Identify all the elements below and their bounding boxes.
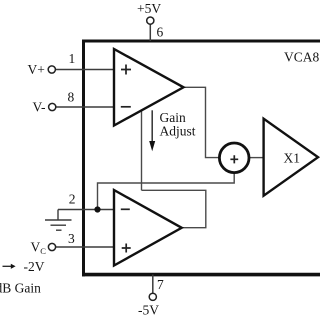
svg-text:1: 1	[69, 51, 76, 66]
terminal +5V pin 6	[147, 17, 154, 24]
svg-text:X1: X1	[284, 151, 301, 166]
terminal V- pin 8	[49, 103, 56, 110]
svg-text:7: 7	[157, 277, 164, 292]
svg-text:+5V: +5V	[137, 1, 161, 16]
op-amp A1	[114, 49, 184, 126]
svg-text:V+: V+	[28, 62, 45, 77]
gain adjust arrow	[149, 110, 155, 151]
wire -5V supply stub to pin 7	[152, 275, 154, 294]
wire summing node to X1 input	[249, 157, 265, 159]
summing junction node	[219, 143, 249, 173]
svg-text:3: 3	[68, 231, 75, 246]
svg-text:V-: V-	[33, 99, 47, 114]
svg-text:8: 8	[68, 89, 75, 104]
svg-text:VC: VC	[31, 240, 47, 257]
svg-text:6: 6	[157, 24, 164, 39]
terminal Vc pin 3	[48, 243, 55, 250]
svg-text:2: 2	[69, 192, 76, 207]
wire summing node to ground node at A2 - input	[98, 171, 235, 210]
terminal V+ pin 1	[48, 66, 55, 73]
svg-text:-2V: -2V	[24, 259, 45, 274]
buffer amplifier X1	[264, 119, 318, 196]
wire pin2 to A2 - input	[58, 209, 114, 211]
wire +5V supply stub to pin 6	[149, 24, 151, 41]
wire pin1 to A1 + input	[55, 69, 114, 71]
svg-text:dB Gain: dB Gain	[0, 280, 41, 295]
junction node at pin2 / A2 - input	[94, 206, 100, 212]
op-amp A2	[114, 190, 182, 266]
wire pin3 to A2 + input	[56, 246, 114, 248]
svg-text:Adjust: Adjust	[160, 124, 196, 139]
ground	[45, 210, 72, 231]
svg-text:-5V: -5V	[138, 303, 159, 318]
IC outline box U1 (VCA810)	[82, 40, 320, 277]
wire A2 output feedback loop	[142, 190, 206, 227]
wire A1 gain-adjust vertical line	[141, 110, 143, 191]
wire pin8 to A1 - input	[56, 106, 114, 108]
label arrow -2V	[3, 265, 12, 267]
terminal -5V pin 7	[149, 293, 156, 300]
svg-text:VCA810: VCA810	[284, 50, 320, 65]
wire A1 output to summing node	[183, 87, 220, 157]
